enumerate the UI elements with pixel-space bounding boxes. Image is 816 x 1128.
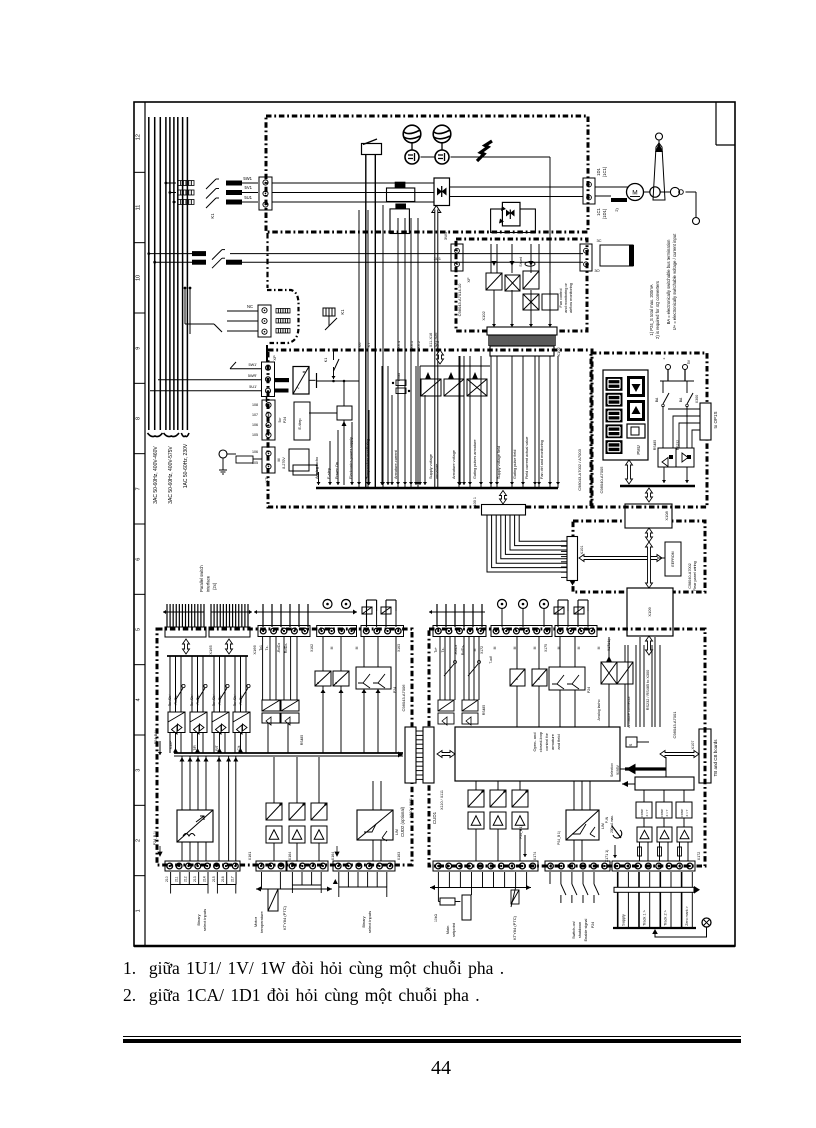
svg-text:X300: X300 — [695, 395, 699, 403]
svg-text:X162: X162 — [310, 644, 314, 652]
svg-text:M: M — [493, 646, 497, 649]
svg-text:select inputs: select inputs — [202, 909, 207, 931]
svg-text:select inputs: select inputs — [367, 911, 372, 933]
svg-text:X110 / X111: X110 / X111 — [440, 790, 444, 810]
svg-text:X21-X26: X21-X26 — [434, 333, 438, 348]
svg-text:KTY84 (PTC): KTY84 (PTC) — [282, 905, 287, 930]
svg-text:X6: X6 — [357, 342, 362, 348]
svg-text:Rx+/Dx+: Rx+/Dx+ — [168, 694, 172, 707]
svg-text:5V: 5V — [687, 359, 691, 364]
svg-text:TB and CB boards: TB and CB boards — [713, 739, 718, 777]
svg-text:Enable signal: Enable signal — [584, 918, 588, 941]
svg-text:214: 214 — [202, 876, 206, 882]
svg-text:Gating pulses armature: Gating pulses armature — [473, 440, 477, 479]
svg-text:BA = electronically switchable: BA = electronically switchable bus termi… — [666, 239, 671, 325]
svg-text:Parallel switch: Parallel switch — [199, 565, 204, 592]
svg-text:2: 2 — [136, 839, 142, 842]
svg-text:T/R: T/R — [193, 745, 197, 751]
svg-text:X172: X172 — [480, 646, 484, 654]
svg-text:X164: X164 — [288, 852, 292, 860]
svg-text:3C: 3C — [596, 238, 601, 243]
svg-text:1AC 50-60Hz, 230V: 1AC 50-60Hz, 230V — [183, 443, 189, 488]
svg-text:C98040-A7005: C98040-A7005 — [599, 466, 604, 494]
svg-text:BA: BA — [679, 397, 683, 402]
svg-text:K1: K1 — [210, 213, 215, 219]
svg-text:X166: X166 — [252, 645, 257, 655]
svg-text:Motor: Motor — [253, 916, 258, 927]
svg-text:C98043-A7001: C98043-A7001 — [672, 711, 677, 739]
svg-text:Binary: Binary — [196, 914, 201, 925]
svg-text:9095V: 9095V — [616, 764, 620, 775]
svg-text:Main: Main — [445, 926, 450, 935]
svg-text:Binary: Binary — [361, 916, 366, 927]
svg-text:213: 213 — [193, 876, 197, 882]
svg-text:8: 8 — [136, 417, 142, 420]
svg-text:212: 212 — [184, 876, 188, 882]
svg-text:8-270V: 8-270V — [282, 457, 286, 469]
svg-text:Selection: Selection — [610, 763, 614, 777]
svg-text:X163: X163 — [397, 644, 401, 652]
svg-text:P24: P24 — [591, 922, 595, 928]
svg-text:5WR': 5WR' — [248, 374, 257, 378]
svg-text:EEPROM: EEPROM — [671, 551, 675, 566]
svg-text:X108: X108 — [664, 511, 669, 521]
svg-text:X164: X164 — [331, 852, 335, 860]
svg-text:12: 12 — [136, 134, 142, 140]
svg-text:Armature voltage: Armature voltage — [452, 450, 456, 479]
svg-text:Field current actual value: Field current actual value — [525, 437, 529, 479]
svg-text:Switch-on/: Switch-on/ — [572, 920, 576, 939]
svg-text:X11-X16: X11-X16 — [429, 333, 433, 348]
svg-text:Track 2 >: Track 2 > — [664, 909, 668, 926]
svg-text:COMP: COMP — [640, 809, 644, 818]
svg-text:X > Y: X > Y — [645, 809, 649, 816]
svg-text:P24_B 1): P24_B 1) — [154, 730, 158, 744]
svg-text:S: S — [628, 743, 633, 746]
svg-text:temperature: temperature — [259, 910, 264, 932]
svg-text:-Rx/Dx: -Rx/Dx — [277, 643, 281, 654]
svg-text:1: 1 — [136, 909, 142, 912]
svg-text:M: M — [355, 646, 359, 649]
svg-text:-Rx/Dx-: -Rx/Dx- — [218, 695, 222, 706]
svg-text:5V1: 5V1 — [245, 185, 253, 190]
svg-text:interface: interface — [206, 575, 211, 592]
svg-text:Supply: Supply — [622, 914, 626, 926]
svg-text:airflow monitoring: airflow monitoring — [569, 283, 573, 313]
svg-text:Electronics power supply: Electronics power supply — [349, 437, 353, 479]
svg-text:LIM: LIM — [395, 829, 399, 835]
svg-text:E-štep: E-štep — [298, 419, 302, 430]
svg-text:3O: 3O — [594, 268, 599, 273]
svg-text:1C1: 1C1 — [596, 207, 601, 215]
svg-text:3: 3 — [136, 769, 142, 772]
svg-text:Track 1 >: Track 1 > — [643, 909, 647, 926]
svg-text:C98043-A7006: C98043-A7006 — [401, 684, 406, 712]
svg-text:U+ = electronically switchable: U+ = electronically switchable voltage /… — [672, 233, 677, 330]
svg-text:K1: K1 — [324, 358, 328, 362]
svg-text:Load: Load — [397, 373, 401, 381]
svg-text:Analog tacho: Analog tacho — [597, 700, 601, 721]
svg-text:C98043-A7014-10: C98043-A7014-10 — [457, 283, 462, 316]
svg-text:armature: armature — [435, 464, 439, 479]
svg-text:X174: X174 — [533, 852, 537, 860]
svg-text:RS485: RS485 — [482, 705, 486, 715]
svg-text:X > Y: X > Y — [685, 809, 689, 816]
svg-text:107: 107 — [252, 413, 258, 417]
svg-text:RS232: RS232 — [676, 440, 680, 450]
svg-text:CUD2 (optional): CUD2 (optional) — [400, 806, 405, 837]
svg-text:Fan ctrl and monitoring: Fan ctrl and monitoring — [540, 440, 544, 479]
svg-text:-Rx/Dx-: -Rx/Dx- — [174, 695, 178, 706]
svg-text:1) P24_S total max. 200mA: 1) P24_S total max. 200mA — [649, 284, 654, 335]
svg-text:105: 105 — [252, 433, 258, 437]
svg-text:NC: NC — [247, 304, 253, 309]
svg-text:control for: control for — [544, 732, 549, 750]
svg-text:COMP: COMP — [660, 809, 664, 818]
svg-text:X107: X107 — [691, 741, 695, 750]
svg-text:7: 7 — [136, 487, 142, 490]
svg-text:Tx+: Tx+ — [434, 647, 438, 653]
svg-text:10kΩ: 10kΩ — [434, 914, 438, 922]
svg-text:Shunt: Shunt — [519, 257, 523, 266]
svg-text:Tx-: Tx- — [441, 648, 445, 653]
svg-text:2) is required for 4Q converte: 2) is required for 4Q converters — [655, 281, 660, 339]
svg-text:X172: X172 — [697, 852, 701, 860]
svg-text:P-IN: P-IN — [605, 816, 609, 823]
svg-text:5or: 5or — [278, 417, 282, 423]
svg-text:215: 215 — [212, 876, 216, 882]
svg-text:3U1: 3U1 — [434, 256, 442, 261]
svg-text:Rear panel wiring: Rear panel wiring — [693, 561, 697, 591]
svg-text:and field: and field — [556, 734, 561, 749]
svg-text:RS232 / RS485 to X300: RS232 / RS485 to X300 — [646, 670, 650, 711]
svg-text:Power On: Power On — [335, 462, 339, 479]
svg-text:X101: X101 — [580, 546, 584, 555]
svg-text:3W1: 3W1 — [443, 231, 448, 240]
svg-text:5: 5 — [136, 628, 142, 631]
svg-text:5U1': 5U1' — [249, 385, 257, 389]
svg-text:(2x): (2x) — [212, 582, 217, 590]
svg-text:Temperature monitoring: Temperature monitoring — [366, 439, 370, 479]
svg-text:108: 108 — [252, 403, 258, 407]
svg-text:106: 106 — [252, 423, 258, 427]
svg-text:X3.4: X3.4 — [396, 340, 401, 349]
svg-text:Rx+/Dx+: Rx+/Dx+ — [233, 694, 237, 707]
svg-text:XP: XP — [272, 355, 277, 361]
svg-text:5W1: 5W1 — [243, 176, 252, 181]
svg-text:4: 4 — [136, 698, 142, 701]
svg-text:P24: P24 — [283, 417, 287, 423]
svg-text:KTY84 (PTC): KTY84 (PTC) — [512, 915, 517, 940]
svg-text:R/T: R/T — [215, 745, 219, 750]
svg-text:216: 216 — [221, 876, 225, 882]
svg-text:217: 217 — [230, 876, 234, 882]
svg-text:M: M — [533, 646, 537, 649]
svg-text:X161: X161 — [248, 852, 252, 860]
svg-text:T-adf: T-adf — [489, 656, 493, 663]
svg-text:~: ~ — [297, 386, 300, 392]
svg-text:5U1: 5U1 — [244, 195, 252, 200]
svg-text:closed-loop: closed-loop — [538, 731, 543, 752]
svg-text:200mA max.: 200mA max. — [610, 815, 614, 833]
svg-text:P24_B 1): P24_B 1) — [519, 825, 523, 838]
svg-text:Analog tacho: Analog tacho — [315, 457, 319, 479]
svg-text:X > Y: X > Y — [665, 809, 669, 816]
svg-text:M: M — [277, 459, 281, 462]
svg-text:-Rx/Dx-: -Rx/Dx- — [196, 695, 200, 706]
svg-text:Rx+/Dx+: Rx+/Dx+ — [190, 694, 194, 707]
svg-text:M: M — [632, 190, 637, 197]
svg-text:Rx/Dx-: Rx/Dx- — [284, 643, 288, 653]
svg-text:M: M — [513, 646, 517, 649]
svg-text:X100 1: X100 1 — [473, 497, 477, 509]
svg-text:6: 6 — [136, 558, 142, 561]
svg-text:-Rx/Dx-: -Rx/Dx- — [239, 695, 243, 706]
svg-text:X163: X163 — [397, 852, 401, 860]
svg-text:Supply voltage field: Supply voltage field — [497, 446, 501, 479]
svg-text:to OP1S: to OP1S — [713, 411, 718, 428]
svg-text:M: M — [577, 646, 581, 649]
svg-text:1D1: 1D1 — [596, 167, 601, 175]
svg-text:CUD1: CUD1 — [432, 811, 437, 824]
svg-text:X102: X102 — [481, 311, 486, 321]
svg-text:S.IMP: S.IMP — [169, 741, 173, 750]
svg-text:M: M — [330, 646, 334, 649]
svg-text:E-step: E-step — [327, 468, 331, 479]
svg-text:Zero mark >: Zero mark > — [685, 906, 689, 925]
svg-text:BA: BA — [655, 397, 659, 402]
svg-text:C98043-A7002 / A7003: C98043-A7002 / A7003 — [577, 448, 582, 490]
svg-text:shutdown: shutdown — [578, 922, 582, 938]
svg-text:11: 11 — [136, 205, 142, 211]
svg-text:X171 1): X171 1) — [605, 850, 609, 863]
svg-text:X109: X109 — [647, 607, 652, 617]
svg-text:RS485: RS485 — [653, 440, 657, 450]
svg-text:106: 106 — [252, 450, 258, 454]
svg-text:X7: X7 — [366, 342, 371, 348]
svg-text:Supply voltage: Supply voltage — [429, 454, 433, 479]
svg-text:Tx-: Tx- — [265, 646, 269, 651]
svg-text:armature: armature — [550, 733, 555, 750]
svg-text:X175: X175 — [544, 644, 548, 652]
svg-text:setpoint: setpoint — [451, 922, 456, 937]
svg-text:(1C1): (1C1) — [602, 166, 607, 177]
svg-text:210: 210 — [165, 876, 169, 882]
svg-text:XF: XF — [466, 277, 471, 283]
svg-text:X3.2: X3.2 — [416, 340, 421, 349]
svg-text:PS4_B 1): PS4_B 1) — [557, 831, 561, 845]
svg-text:3AC 50-60Hz, 400V-575V: 3AC 50-60Hz, 400V-575V — [168, 446, 174, 504]
svg-text:C98040-A7002: C98040-A7002 — [688, 563, 692, 589]
svg-text:Gating pulse field: Gating pulse field — [513, 450, 517, 479]
svg-text:(1D1): (1D1) — [602, 208, 607, 219]
svg-text:Rx+/Dx+: Rx+/Dx+ — [212, 694, 216, 707]
svg-text:P24_B 1): P24_B 1) — [153, 831, 157, 845]
svg-text:5W1': 5W1' — [248, 363, 257, 367]
svg-text:Armature-current: Armature-current — [394, 449, 398, 479]
svg-text:COMP: COMP — [680, 809, 684, 818]
svg-text:211: 211 — [174, 876, 178, 882]
svg-text:Open- and: Open- and — [532, 733, 537, 752]
svg-text:=: = — [303, 370, 306, 376]
svg-text:PMU: PMU — [636, 445, 641, 454]
svg-text:X165: X165 — [208, 645, 213, 655]
svg-text:9: 9 — [136, 347, 142, 350]
svg-text:Fan control: Fan control — [559, 288, 563, 307]
svg-text:X102: X102 — [556, 347, 561, 357]
svg-text:and monitoring or: and monitoring or — [564, 282, 568, 312]
svg-text:RS485: RS485 — [300, 735, 304, 745]
svg-text:P24: P24 — [587, 687, 591, 693]
svg-text:Clk: Clk — [237, 745, 241, 750]
svg-text:X110 / X111: X110 / X111 — [409, 798, 413, 818]
svg-text:M: M — [597, 646, 601, 649]
svg-text:X3.1: X3.1 — [409, 340, 414, 349]
svg-text:10: 10 — [136, 275, 142, 281]
svg-text:3AC 50-60Hz, 400V-460V: 3AC 50-60Hz, 400V-460V — [153, 446, 159, 504]
svg-text:K1: K1 — [340, 309, 345, 315]
